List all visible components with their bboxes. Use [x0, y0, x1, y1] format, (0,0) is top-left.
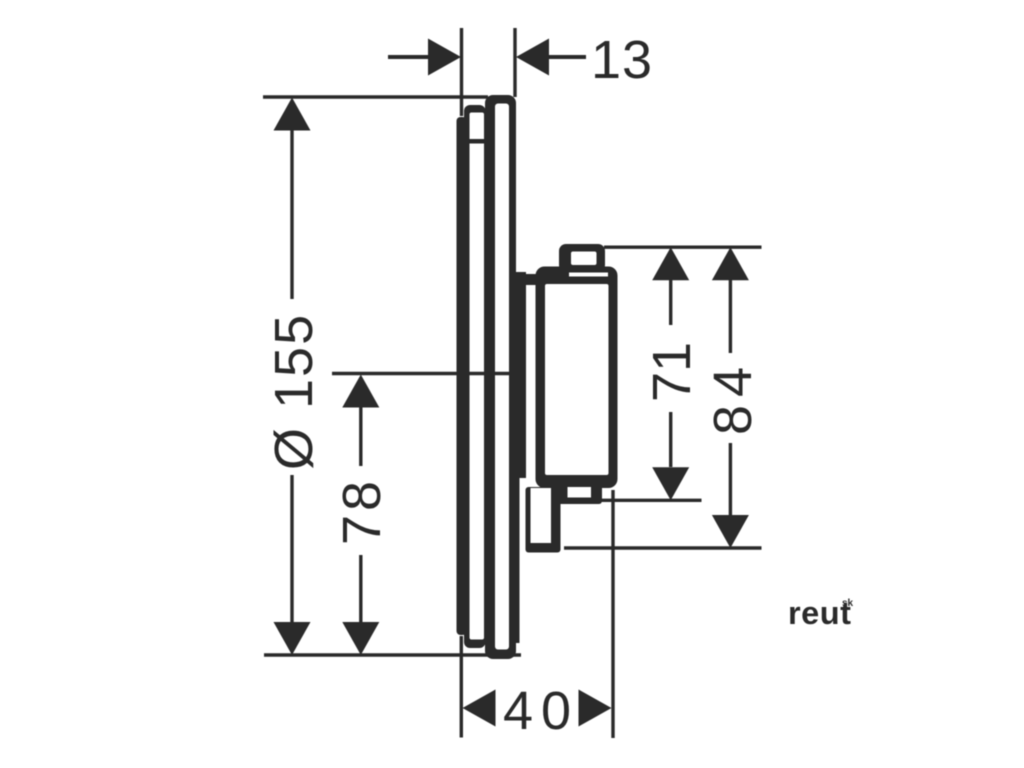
- dim 13: right extension line: [513, 28, 516, 97]
- dim 78: dimension line upper segment: [359, 406, 362, 466]
- dim 40: left extension line: [460, 636, 463, 738]
- plate front flange outer: [464, 105, 486, 648]
- dim 78: top extension line: [332, 372, 517, 375]
- dim 78: bottom arrowhead: [342, 622, 379, 655]
- plate front flange inner white: [470, 113, 485, 640]
- dim Ø155/78: bottom extension line: [264, 653, 521, 656]
- dim 71: dimension line upper segment: [669, 280, 672, 325]
- dim 71: dimension line lower segment: [669, 412, 672, 467]
- svg-text:40: 40: [503, 681, 579, 741]
- dim 13: right lead line: [548, 55, 586, 59]
- plate front lip strip: [457, 117, 467, 635]
- dim 71/84: top extension line: [604, 245, 762, 248]
- body top nub: [559, 244, 605, 272]
- dim 40: right arrowhead: [579, 690, 612, 727]
- dim 13: left lead line: [388, 55, 430, 59]
- dim 13: left extension line: [460, 28, 463, 116]
- dim Ø155: bottom arrowhead: [274, 622, 311, 655]
- svg-text:13: 13: [591, 30, 653, 90]
- dim 40: left arrowhead: [463, 690, 496, 727]
- pipe stub inner white: [531, 488, 552, 543]
- body top nub inner white: [571, 252, 597, 266]
- body top cap white sliver: [569, 273, 608, 277]
- dim 71: bottom extension line: [602, 499, 702, 502]
- svg-text:78: 78: [332, 477, 392, 545]
- dim Ø155: top extension line: [263, 95, 488, 98]
- dim 84: dimension line upper segment: [729, 280, 732, 353]
- pipe stub below body: [526, 487, 561, 553]
- dim Ø155: dimension line upper segment: [290, 128, 293, 299]
- svg-text:Ø 155: Ø 155: [264, 313, 324, 470]
- dim 84: bottom arrowhead: [712, 515, 749, 548]
- dim 78: top arrowhead: [342, 375, 379, 408]
- slab right edge lower widening: [509, 478, 520, 643]
- dim 78: dimension line lower segment: [359, 555, 362, 622]
- svg-text:84: 84: [703, 359, 763, 435]
- bracket behind plate: [512, 272, 526, 478]
- dim 71: bottom arrowhead: [652, 467, 689, 500]
- body bottom nub: [557, 481, 603, 504]
- dim 84: bottom extension line: [564, 546, 762, 549]
- body bottom nub inner white: [568, 487, 592, 498]
- flange inner tick: [469, 139, 485, 144]
- dim 13: right arrowhead: [516, 39, 549, 76]
- dim 84: top arrowhead: [712, 247, 749, 280]
- dim 40: right extension line: [611, 490, 614, 738]
- dim 84: dimension line lower segment: [729, 443, 732, 515]
- body (cartridge) outer: [536, 267, 618, 489]
- dim Ø155: top arrowhead: [274, 98, 311, 131]
- svg-text:sk: sk: [842, 598, 854, 609]
- bracket top arm: [514, 274, 538, 285]
- plate slab (13mm edge): [485, 95, 516, 659]
- plate slab inner white strip: [495, 104, 509, 650]
- body inner white: [545, 284, 609, 475]
- svg-text:71: 71: [642, 342, 702, 402]
- dim Ø155: dimension line lower segment: [290, 475, 293, 622]
- dim 13: left arrowhead: [428, 39, 461, 76]
- dim 71: top arrowhead: [652, 247, 689, 280]
